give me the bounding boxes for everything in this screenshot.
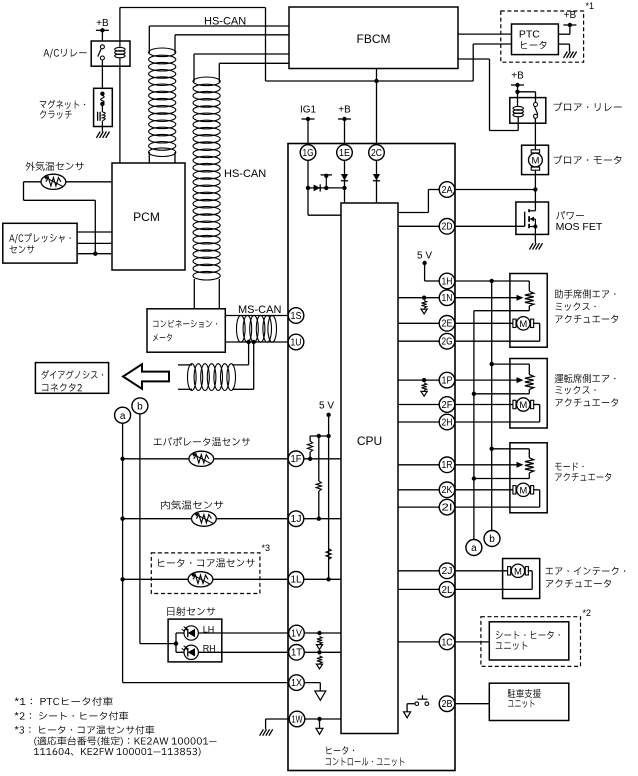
twisted pair coil MS-CAN — [237, 315, 277, 342]
node a right — [466, 540, 482, 556]
magnet clutch contact dots — [100, 92, 104, 107]
junction a 1L — [120, 577, 124, 581]
seat heater dashed box — [481, 617, 581, 667]
wire coil2 to combination meter — [194, 279, 219, 309]
svg-text:+B: +B — [96, 18, 109, 29]
wire heater core sensor row 1L — [123, 578, 289, 580]
wire pressure sensor to PCM — [77, 232, 112, 254]
terminal 2K — [439, 482, 455, 498]
svg-text:2K: 2K — [442, 485, 453, 496]
svg-text:2D: 2D — [442, 222, 453, 233]
terminal 2G — [439, 333, 455, 349]
power +B center — [338, 105, 351, 122]
footnote 2 — [15, 711, 129, 720]
wire PCM to A/C relay coil — [119, 66, 121, 163]
svg-text:1F: 1F — [291, 454, 302, 465]
label MS-CAN — [238, 304, 281, 316]
power MOS FET box — [516, 202, 549, 234]
svg-text:1P: 1P — [442, 376, 453, 387]
combination meter box — [147, 309, 225, 352]
wire inside air sensor row 1J — [123, 518, 289, 520]
label CPU — [357, 434, 382, 448]
wire MS-CAN branch to diagnosis pair — [178, 342, 254, 389]
actuator 3 box (mode) — [510, 443, 547, 513]
wire 2J row — [398, 570, 439, 572]
svg-text:PTC: PTC — [519, 28, 540, 40]
actuator 1 box (passenger air mix) — [510, 274, 547, 348]
terminal 2D — [439, 219, 455, 235]
svg-text:MOS FET: MOS FET — [556, 221, 603, 233]
terminal 2F — [439, 397, 455, 413]
svg-text:1X: 1X — [291, 678, 302, 689]
diode D1 1G line — [314, 184, 321, 191]
thermistor heater core — [188, 572, 213, 587]
actuator 2 box (driver air mix) — [510, 359, 547, 429]
svg-text:5 V: 5 V — [319, 401, 334, 412]
wire 2F to motor 2 — [455, 404, 514, 406]
svg-text:HS-CAN: HS-CAN — [224, 168, 266, 180]
thermistor evaporator — [189, 451, 214, 466]
footnote 3c — [34, 747, 201, 756]
resistor R5 1T pulldown — [316, 656, 322, 669]
svg-text:1U: 1U — [291, 337, 302, 348]
blower relay box — [510, 98, 546, 124]
terminal 2L — [439, 582, 455, 598]
svg-text:M: M — [519, 400, 527, 411]
node a left — [115, 407, 131, 423]
wire +B to blower relay — [515, 85, 535, 106]
svg-text:b: b — [137, 402, 143, 413]
wire FBCM to PTC — [458, 33, 512, 35]
wire blower motor to MOSFET drain — [533, 170, 537, 211]
twisted pair coil HS-CAN 1 — [149, 48, 176, 157]
PCM box — [112, 163, 185, 270]
wire 2I row — [398, 506, 439, 508]
label HS-CAN top — [204, 15, 246, 27]
wire 2K row — [398, 489, 439, 491]
motor air intake — [508, 564, 529, 577]
blower relay switch contacts — [534, 103, 538, 119]
wire outside air sensor — [24, 182, 113, 254]
wire A/C relay coil top to FBCM/PTC net — [120, 8, 512, 82]
svg-text:*3: *3 — [262, 543, 271, 553]
svg-text:1H: 1H — [442, 276, 453, 287]
sun sensor box — [168, 619, 222, 662]
wire relay to blower motor — [534, 118, 536, 152]
label actuator 2 — [555, 374, 619, 407]
svg-text:1S: 1S — [291, 311, 302, 322]
heater core sensor dashed box — [151, 553, 260, 594]
wire coil1 to PCM — [149, 152, 175, 163]
svg-text:1J: 1J — [291, 514, 302, 525]
wire clutch to ground — [101, 127, 103, 132]
wire node a down — [123, 423, 289, 682]
wire 1W to CPU — [305, 717, 341, 721]
label inside air temp sensor — [161, 500, 223, 509]
wire 2F row — [398, 404, 439, 406]
svg-text:1W: 1W — [292, 714, 303, 725]
diode D2 1E line — [341, 174, 348, 181]
potentiometer actuator 2 — [474, 375, 534, 394]
wire pot supply chain b — [490, 281, 494, 531]
svg-text:1V: 1V — [291, 628, 302, 639]
terminal 1S — [288, 308, 304, 324]
svg-text:2A: 2A — [442, 185, 453, 196]
svg-text:b: b — [489, 534, 495, 545]
terminal 1P — [439, 372, 455, 388]
svg-text:M: M — [519, 319, 527, 330]
terminal 1X — [289, 675, 305, 691]
label note 2 mark — [583, 608, 592, 618]
footnote 3 — [15, 725, 155, 734]
terminal 2C — [369, 145, 385, 161]
terminal 2B — [439, 696, 455, 712]
wire 1E internal — [342, 160, 346, 203]
label heater core temp sensor — [158, 558, 254, 567]
PTC dashed box — [501, 11, 584, 62]
terminal 1V — [289, 625, 305, 641]
terminal 2H — [439, 414, 455, 430]
A/C pressure sensor box — [3, 223, 77, 263]
A/C relay K1 box — [91, 41, 130, 66]
parking assist unit box — [489, 683, 569, 720]
wire motor 3 return 2I — [455, 490, 540, 507]
wire 2A to MOSFET — [398, 190, 535, 213]
photodiode LH — [182, 626, 199, 640]
wire evaporator sensor row 1F — [123, 458, 289, 460]
wire 1F to CPU — [304, 458, 341, 460]
ground arrow 1X — [315, 691, 326, 700]
svg-text:MS-CAN: MS-CAN — [238, 304, 281, 316]
blower motor box — [522, 145, 549, 174]
wire RH to 1T — [198, 651, 288, 653]
wire motor 2 return 2H — [455, 405, 540, 423]
potentiometer actuator 1 — [474, 291, 534, 310]
air intake actuator box — [503, 559, 540, 599]
terminal 2E — [439, 316, 455, 332]
arrow to diagnosis connector — [123, 364, 169, 389]
photodiode RH — [182, 645, 199, 659]
thermistor inside air — [192, 511, 217, 526]
junction MS-CAN branch — [246, 340, 255, 344]
junction sun sensor common b — [174, 641, 178, 645]
terminal 1H — [439, 273, 455, 289]
junction sensor ground — [93, 252, 97, 256]
label evaporator temp sensor — [154, 437, 250, 446]
label parking assist unit — [508, 689, 541, 708]
svg-text:2L: 2L — [442, 585, 453, 596]
terminal 1W — [289, 711, 305, 727]
wire motor 1 return 2G — [455, 323, 540, 341]
svg-text:2J: 2J — [442, 566, 453, 577]
ground magnet clutch — [96, 132, 109, 138]
label PCM — [133, 210, 160, 224]
seat heater unit box — [489, 622, 569, 660]
wire pot return chain a — [472, 311, 476, 540]
terminal stub bar — [321, 174, 332, 190]
terminal 1F — [288, 451, 304, 467]
svg-text:IG1: IG1 — [300, 105, 317, 116]
svg-text:2C: 2C — [371, 148, 382, 159]
label PTC heater — [519, 28, 547, 49]
wire 2L row — [398, 588, 439, 590]
switch parking to 2B — [407, 695, 429, 711]
magnet clutch coil with core — [98, 104, 106, 127]
wire 1W stub ground — [316, 719, 323, 734]
motor actuator 3 — [513, 483, 534, 496]
svg-text:M: M — [519, 485, 527, 496]
wire HS-CAN pair2 to FBCM — [194, 54, 289, 82]
wire 1T to CPU — [304, 650, 341, 654]
label magnet clutch — [40, 100, 85, 119]
label air intake actuator — [545, 567, 625, 588]
label A/C pressure sensor — [9, 233, 71, 253]
wire 2C internal — [376, 160, 378, 203]
wire node b down — [140, 414, 176, 644]
label note 1 mark — [586, 1, 595, 11]
footnote 1 — [15, 697, 113, 706]
terminal 1U — [288, 334, 304, 350]
label sun sensor — [167, 607, 215, 616]
terminal 1N — [439, 290, 455, 306]
wire 2E to motor 1 — [455, 322, 514, 324]
twisted pair coil HS-CAN 2 — [193, 77, 220, 280]
footnote 3b — [34, 736, 216, 745]
wire 1R wiper — [455, 462, 524, 468]
svg-text:FBCM: FBCM — [357, 32, 391, 46]
wire 1W to chassis ground — [266, 719, 289, 729]
magnet clutch thermal coil — [101, 96, 104, 104]
wire sun sensor common — [176, 633, 184, 652]
svg-text:+B: +B — [564, 10, 577, 21]
svg-text:a: a — [471, 543, 477, 554]
wire 2G row — [398, 340, 439, 342]
wire 1C to seat heater — [455, 641, 490, 643]
terminal 2A — [439, 182, 455, 198]
heater control unit box — [288, 144, 455, 771]
svg-text:+B: +B — [338, 105, 351, 116]
wire FBCM to blower relay coil — [458, 59, 518, 131]
label RH — [203, 644, 216, 654]
wire 1X internal — [304, 683, 320, 691]
svg-text:2B: 2B — [442, 699, 453, 710]
motor actuator 2 — [513, 398, 534, 411]
svg-text:M: M — [531, 156, 539, 167]
svg-text:1L: 1L — [291, 575, 302, 586]
svg-text:1N: 1N — [442, 293, 453, 304]
wire 2H row — [398, 421, 439, 423]
ground PTC heater — [564, 52, 577, 58]
svg-text:2I: 2I — [442, 503, 453, 514]
node b left — [132, 398, 148, 414]
power 5V at 1H — [417, 251, 439, 282]
svg-text:5 V: 5 V — [417, 251, 432, 262]
svg-text:M: M — [514, 566, 522, 577]
wire HS-CAN pair1 to FBCM — [149, 26, 289, 53]
label blower motor — [554, 155, 622, 164]
CPU box — [341, 203, 398, 734]
wire +B to A/C relay — [101, 30, 103, 41]
wire 1G internal — [306, 160, 345, 215]
resistor R7 1P pulldown — [421, 383, 427, 396]
svg-text:1R: 1R — [442, 460, 453, 471]
resistor R2 1J pullup — [316, 436, 321, 521]
node b right — [484, 531, 500, 547]
label LH — [203, 624, 215, 634]
svg-text:*1: *1 — [586, 1, 595, 11]
wire 1C row — [398, 641, 439, 643]
wire supply to pot 3 — [492, 449, 530, 458]
wire PTC to +B — [558, 25, 570, 34]
wire 1R row — [398, 464, 439, 466]
junction 2C feed — [374, 79, 378, 83]
label heater control unit — [326, 746, 405, 766]
wire MS-CAN pair to unit — [225, 316, 288, 343]
wire 1N wiper — [455, 295, 524, 301]
A/C relay coil — [115, 41, 125, 66]
wire 1P row — [398, 378, 439, 382]
A/C relay switch contacts — [98, 45, 105, 60]
label HS-CAN middle — [224, 168, 266, 180]
svg-text:*2: *2 — [583, 608, 592, 618]
svg-text:2F: 2F — [442, 400, 453, 411]
resistor R6 1N pulldown — [421, 301, 427, 314]
wire supply to pot 2 — [492, 364, 530, 374]
svg-text:1G: 1G — [303, 148, 314, 159]
svg-text:PCM: PCM — [133, 210, 160, 224]
svg-text:a: a — [120, 411, 126, 422]
wire 2J to intake motor — [455, 570, 509, 572]
svg-text:1C: 1C — [442, 637, 453, 648]
label diagnosis connector 2 — [42, 370, 104, 392]
label FBCM — [357, 32, 391, 46]
wire 1H to pot supply chain — [455, 279, 530, 292]
wire PTC to ground — [558, 44, 569, 51]
wire 2E row — [398, 322, 439, 324]
resistor R4 1V pulldown — [316, 637, 322, 650]
svg-text:1T: 1T — [291, 648, 302, 659]
terminal 2J — [439, 563, 455, 579]
PTC heater box — [512, 24, 559, 55]
ground MOSFET — [529, 243, 542, 249]
diagnosis connector 2 box — [35, 363, 108, 394]
junction a 1J — [120, 517, 124, 521]
blower motor M — [529, 150, 543, 170]
label seat heater unit — [496, 631, 560, 650]
wire 2B to parking unit — [455, 703, 490, 705]
power 5V internal — [319, 401, 334, 417]
label note 3 mark — [262, 543, 271, 553]
terminal 1C — [439, 634, 455, 650]
label blower relay — [554, 102, 622, 111]
terminal 1E — [337, 145, 353, 161]
svg-text:2G: 2G — [442, 337, 453, 348]
power IG1 — [300, 105, 317, 122]
wire LH to 1V — [198, 632, 288, 634]
potentiometer actuator 3 — [474, 458, 534, 479]
motor actuator 1 — [513, 317, 534, 330]
thermistor outside air temp — [41, 174, 66, 189]
terminal 2I — [439, 499, 455, 515]
MOSFET symbol — [525, 209, 538, 235]
wire IG1 to 1G — [307, 119, 309, 145]
twisted pair coil diagnosis — [188, 364, 236, 391]
svg-text:2H: 2H — [442, 417, 453, 428]
ground 1W — [260, 729, 273, 735]
resistor R3 1L pullup — [326, 549, 331, 582]
wire 2K to motor 3 — [455, 489, 514, 491]
wire 5V rail — [310, 415, 331, 580]
wire A/C relay switch to magnet clutch — [101, 60, 103, 88]
power +B for blower relay — [511, 71, 524, 88]
wire 1J to CPU — [304, 518, 341, 520]
terminal 1J — [288, 511, 304, 527]
wire +B to 1E — [344, 119, 346, 145]
diode D3 2C line — [373, 174, 380, 181]
wire MOSFET to ground — [534, 235, 536, 243]
blower relay coil — [513, 106, 523, 116]
wire 1V to CPU — [304, 631, 341, 635]
terminal 1L — [288, 572, 304, 588]
FBCM box — [289, 7, 458, 69]
svg-text:+B: +B — [511, 71, 524, 82]
svg-text:2E: 2E — [442, 319, 453, 330]
wire 1N row — [398, 296, 439, 300]
magnet clutch box — [94, 88, 113, 126]
label actuator 1 — [555, 289, 619, 323]
power +B for A/C relay — [96, 18, 109, 33]
wire intake motor return 2L — [455, 571, 532, 590]
junction a 1F — [120, 457, 124, 461]
resistor R1 1F pullup — [308, 436, 313, 461]
wire 1L to CPU — [304, 578, 341, 580]
wire FBCM to 2C — [376, 69, 378, 145]
power +B for PTC — [563, 10, 576, 27]
ground arrow parking switch — [404, 712, 411, 718]
wire 1P wiper — [455, 377, 524, 383]
label power MOS FET — [556, 211, 603, 233]
terminal 1R — [439, 457, 455, 473]
terminal 1G — [300, 145, 316, 161]
terminal 1T — [289, 645, 305, 661]
label A/C relay — [43, 49, 86, 58]
svg-text:1E: 1E — [339, 148, 350, 159]
svg-text:CPU: CPU — [357, 434, 382, 448]
label combination meter — [153, 320, 217, 342]
label actuator 3 — [555, 462, 611, 481]
label outside air temp sensor — [25, 162, 83, 171]
wire 2D to MOSFET gate — [398, 225, 525, 227]
